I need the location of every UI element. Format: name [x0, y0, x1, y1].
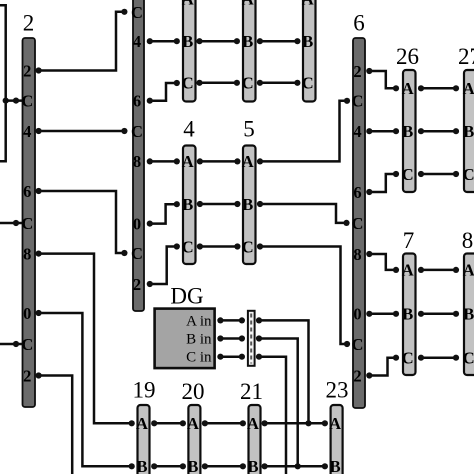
svg-text:7: 7 [403, 228, 415, 253]
wire relay7 A to relay8 A [421, 269, 456, 272]
svg-text:4: 4 [183, 117, 195, 142]
svg-text:6: 6 [133, 92, 141, 111]
node bus6 pin 2 [366, 68, 372, 74]
svg-text:B: B [247, 457, 258, 474]
node relay4 pin B right [197, 201, 203, 207]
wire relay5 A to bus6 C1 [260, 101, 347, 162]
node top1 pin C left [174, 80, 180, 86]
wire DG Bin to strip [220, 337, 242, 340]
svg-text:2: 2 [23, 61, 31, 80]
node busmid pin 4 [147, 38, 153, 44]
node relay26 pin A right [418, 85, 424, 91]
svg-text:C: C [402, 349, 414, 368]
node relay26 pin C right [418, 171, 424, 177]
svg-text:A: A [463, 261, 474, 280]
svg-text:C: C [352, 214, 364, 233]
svg-text:C: C [242, 237, 254, 256]
svg-text:A: A [329, 414, 341, 433]
wire relay5 B to bus6 C2 [260, 204, 347, 223]
node relay8 pin A left [453, 267, 459, 273]
node bus6 pin 6 [366, 189, 372, 195]
relay bar 7 [402, 254, 416, 376]
svg-text:B: B [136, 457, 147, 474]
svg-text:0: 0 [23, 304, 31, 323]
node bus6 pin 0 [366, 311, 372, 317]
node relay27 pin A left [453, 85, 459, 91]
wire bus6 pin6 to relay26 C [369, 174, 396, 192]
node relay23 pin B left [322, 463, 328, 469]
node bus2 pin 2 [36, 67, 42, 73]
svg-text:B: B [302, 32, 313, 51]
node bus6 pin 4 [366, 128, 372, 134]
wire busmid pin4 to top1 B [150, 40, 177, 43]
svg-text:B: B [187, 457, 198, 474]
svg-text:2: 2 [23, 366, 31, 385]
svg-text:C: C [352, 335, 364, 354]
node relay27 pin C left [453, 171, 459, 177]
wire strip Ain to A-row junction [259, 320, 309, 423]
svg-text:2: 2 [133, 275, 141, 294]
svg-text:C: C [131, 122, 143, 141]
wire relay21 B to relay23 B [265, 465, 325, 468]
node busmid pin 0 [147, 221, 153, 227]
node relay26 pin A left [393, 85, 399, 91]
svg-text:8: 8 [133, 152, 141, 171]
wire strip Cin off bottom [259, 357, 286, 474]
node relay26 pin B left [393, 128, 399, 134]
wire relay4 A to relay5 A [200, 160, 238, 163]
wire bus6 pin4 to relay26 B [369, 130, 396, 133]
svg-text:B: B [463, 305, 474, 324]
node relay19 pin B left [129, 463, 135, 469]
wire top1 C to top2 C [200, 82, 237, 85]
svg-text:C: C [463, 349, 474, 368]
svg-text:C: C [402, 165, 414, 184]
bus bar 6 (right dark bus) [352, 38, 365, 408]
svg-text:4: 4 [353, 122, 361, 141]
svg-text:A: A [182, 152, 194, 171]
node relay8 pin B left [453, 311, 459, 317]
node relay20 pin B left [180, 463, 186, 469]
wire strip Bin to B-row junction [259, 339, 298, 467]
node top1 pin C right [196, 80, 202, 86]
svg-text:A: A [242, 0, 254, 9]
node strip Bin right [256, 335, 262, 341]
node busmid pin C3 [121, 250, 127, 256]
node relay7 pin B right [418, 311, 424, 317]
node bus2 pin 2b [36, 372, 42, 378]
svg-text:DG: DG [170, 284, 203, 309]
svg-text:2: 2 [353, 366, 361, 385]
node relay4 pin A right [197, 158, 203, 164]
node relay4 pin C left [174, 243, 180, 249]
relay bar 27 [463, 70, 474, 192]
wire relay26 C to relay27 C [421, 173, 456, 176]
node DG Ain out [217, 317, 223, 323]
wire busmid pin6 to top1 C [150, 83, 177, 101]
node relay26 pin B right [418, 128, 424, 134]
node junction B row [295, 463, 301, 469]
node busmid pin 6 [147, 98, 153, 104]
relay bar 26 [402, 70, 416, 192]
node relay23 pin A left [322, 420, 328, 426]
node bus6 pin 2b [366, 372, 372, 378]
svg-text:4: 4 [133, 32, 141, 51]
svg-text:20: 20 [182, 379, 205, 404]
wire bus2 pin6 to busmid C3 [39, 191, 125, 253]
svg-text:A: A [242, 152, 254, 171]
svg-text:C: C [182, 237, 194, 256]
wire bus6 pin2 to relay26 A [369, 71, 396, 88]
node top2 pin C left [234, 80, 240, 86]
node bus2 pin 4 [36, 128, 42, 134]
svg-text:B: B [402, 305, 413, 324]
svg-text:B: B [463, 122, 474, 141]
node DG Cin out [217, 354, 223, 360]
svg-text:C: C [21, 214, 33, 233]
wire bus2 pin C2 to left edge [0, 222, 23, 225]
svg-text:2: 2 [23, 11, 35, 36]
svg-text:B: B [182, 195, 193, 214]
node relay5 pin C right [257, 243, 263, 249]
wire busmid pin0 to relay4 B [150, 204, 177, 223]
relay bar 19 [136, 405, 149, 474]
wire relay21 A to relay23 A [265, 422, 325, 425]
wire bus2 pin2b off bottom [39, 376, 73, 474]
DG generator box [155, 309, 215, 369]
svg-text:B: B [330, 457, 341, 474]
svg-text:C: C [182, 74, 194, 93]
node bus2 pin 8 [36, 251, 42, 257]
wire DG Ain to strip [220, 319, 242, 322]
svg-text:C: C [352, 92, 364, 111]
wire DG Cin to strip [220, 355, 242, 358]
relay bar 23 [329, 405, 342, 474]
node strip Ain left [239, 317, 245, 323]
svg-text:C in: C in [186, 350, 212, 366]
node relay7 pin C right [418, 355, 424, 361]
node relay19 pin B right [151, 463, 157, 469]
wire relay19 A to relay20 A [154, 422, 183, 425]
svg-text:C: C [131, 244, 143, 263]
node bus2 pin 6 [36, 188, 42, 194]
wire relay26 B to relay27 B [421, 130, 456, 133]
svg-text:B: B [242, 32, 253, 51]
svg-text:B: B [242, 195, 253, 214]
node relay21 pin B right [262, 463, 268, 469]
node relay7 pin A right [418, 267, 424, 273]
svg-text:A: A [136, 414, 148, 433]
node top1 pin B right [196, 38, 202, 44]
node strip Cin left [239, 354, 245, 360]
svg-text:A: A [402, 261, 414, 280]
svg-text:C: C [131, 3, 143, 22]
node relay19 pin A left [129, 420, 135, 426]
relay bar 5 [242, 146, 256, 265]
node bus6 pin 8 [366, 251, 372, 257]
wire bus6 pin0 to relay7 B [369, 313, 396, 316]
svg-text:A in: A in [186, 313, 212, 329]
node bus2 pin C2 [13, 220, 19, 226]
wire relay4 B to relay5 B [200, 203, 238, 206]
node relay20 pin A left [180, 420, 186, 426]
wire bracket to bus2 pin C [6, 99, 23, 102]
svg-text:C: C [463, 165, 474, 184]
svg-text:2: 2 [353, 62, 361, 81]
node bus2 pin C1 [13, 98, 19, 104]
node top2 pin B left [234, 38, 240, 44]
relay bar 21 [247, 405, 260, 474]
wire relay5 C to bus6 C3 [260, 247, 347, 345]
node relay8 pin C left [453, 355, 459, 361]
svg-text:C: C [242, 74, 254, 93]
node relay7 pin A left [393, 267, 399, 273]
node relay5 pin B right [257, 201, 263, 207]
node bus6 pin C3 [344, 341, 350, 347]
svg-text:5: 5 [243, 117, 255, 142]
relay bar 4 [182, 146, 196, 265]
svg-text:B: B [402, 122, 413, 141]
svg-text:C: C [21, 335, 33, 354]
node relay20 pin A right [202, 420, 208, 426]
node relay7 pin B left [393, 311, 399, 317]
svg-text:B in: B in [186, 332, 212, 348]
node top2 pin C right [257, 80, 263, 86]
svg-text:8: 8 [23, 244, 31, 263]
wire top1 B to top2 B [200, 40, 237, 43]
svg-text:A: A [402, 79, 414, 98]
svg-text:19: 19 [133, 378, 156, 403]
node relay19 pin A right [151, 420, 157, 426]
wire bus6 pin8 to relay7 A [369, 254, 396, 270]
node busmid pin 2 [147, 281, 153, 287]
svg-text:4: 4 [23, 122, 31, 141]
node busmid pin C2 [121, 128, 127, 134]
svg-text:8: 8 [353, 245, 361, 264]
wire bracket left edge [0, 5, 6, 161]
node relay27 pin B left [453, 128, 459, 134]
svg-text:0: 0 [353, 305, 361, 324]
node top3 pin B left [294, 38, 300, 44]
node busmid pin C top [121, 9, 127, 15]
svg-text:26: 26 [396, 44, 419, 69]
svg-text:A: A [463, 79, 474, 98]
node bus2 pin C3 [13, 341, 19, 347]
node DG Bin out [217, 335, 223, 341]
node relay5 pin C left [234, 243, 240, 249]
node bus6 pin C2 [343, 220, 349, 226]
svg-text:C: C [302, 74, 314, 93]
relay bar 20 [187, 405, 200, 474]
node strip Ain right [256, 317, 262, 323]
node bus2 pin 0 [36, 310, 42, 316]
wire relay26 A to relay27 A [421, 87, 456, 90]
node relay20 pin B right [202, 463, 208, 469]
node top3 pin C left [294, 80, 300, 86]
svg-text:A: A [187, 414, 199, 433]
svg-text:A: A [247, 414, 259, 433]
wire bus2 pin C3 to left edge [0, 343, 23, 346]
svg-text:6: 6 [353, 183, 361, 202]
svg-text:27: 27 [458, 44, 474, 69]
wire bus2 pin0 to relay19 B [39, 313, 132, 466]
node relay5 pin A left [234, 158, 240, 164]
node relay5 pin A right [257, 158, 263, 164]
wire bus2 pin8 to relay19 A [39, 254, 132, 424]
node relay21 pin A right [262, 420, 268, 426]
wire busmid pin8 to relay4 A [150, 160, 177, 163]
node bus6 pin C1 [344, 98, 350, 104]
svg-text:23: 23 [326, 378, 349, 403]
node relay4 pin C right [197, 243, 203, 249]
wire relay19 B to relay20 B [154, 465, 183, 468]
node top2 pin B right [257, 38, 263, 44]
wire relay7 C to relay8 C [421, 356, 456, 359]
wire top2 B to top3 B [260, 40, 298, 43]
node strip Bin left [239, 335, 245, 341]
relay bar top-2 [242, 0, 256, 102]
node busmid pin 8 [147, 158, 153, 164]
wire bus2 pin4 to busmid C2 [39, 130, 125, 133]
svg-text:0: 0 [133, 214, 141, 233]
node relay5 pin B left [234, 201, 240, 207]
svg-text:21: 21 [240, 379, 263, 404]
svg-text:A: A [182, 0, 194, 9]
node relay26 pin C left [393, 171, 399, 177]
relay bar top-3 [302, 0, 316, 102]
wire busmid pin2 to relay4 C [150, 247, 177, 285]
wire relay4 C to relay5 C [200, 245, 238, 248]
svg-text:C: C [21, 91, 33, 110]
node relay21 pin A left [240, 420, 246, 426]
node relay4 pin A left [174, 158, 180, 164]
wire bus6 pin2b to relay7 C [369, 358, 396, 376]
svg-text:B: B [182, 32, 193, 51]
node strip Cin right [256, 354, 262, 360]
node relay4 pin B left [174, 201, 180, 207]
bus bar mid (upper middle dark bus) [131, 0, 144, 311]
node top1 pin B left [174, 38, 180, 44]
svg-text:6: 6 [353, 11, 365, 36]
relay bar top-1 [182, 0, 196, 102]
DG output connector strip [248, 311, 255, 366]
bus bar 2 (left dark bus) [21, 38, 35, 407]
wire relay20 A to relay21 A [205, 422, 243, 425]
relay bar 8 [463, 254, 474, 376]
node junction bracket-C [3, 98, 9, 104]
node junction A row [305, 420, 311, 426]
svg-text:6: 6 [23, 182, 31, 201]
wire top2 C to top3 C [260, 82, 298, 85]
svg-text:8: 8 [462, 228, 474, 253]
node relay21 pin B left [240, 463, 246, 469]
wire relay20 B to relay21 B [205, 465, 243, 468]
svg-text:A: A [302, 0, 314, 9]
node relay7 pin C left [393, 355, 399, 361]
wire bus2 pin2 to busmid C [39, 12, 125, 71]
wire relay7 B to relay8 B [421, 313, 456, 316]
